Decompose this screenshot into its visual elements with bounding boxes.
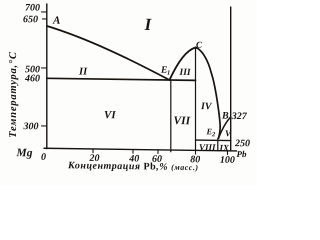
svg-text:Концентрация Pb,% (масс.): Концентрация Pb,% (масс.) [67,160,198,173]
tick 40 [132,150,134,154]
tick 100 [227,151,229,155]
y-axis [46,4,48,149]
svg-text:250: 250 [234,138,250,149]
liquidus E1 to C [170,47,196,80]
svg-text:I: I [144,15,153,34]
svg-text:Pb: Pb [237,149,247,159]
svg-text:B: B [221,110,229,121]
svg-text:327: 327 [231,111,248,122]
svg-text:II: II [78,66,88,77]
svg-text:IX: IX [219,143,231,153]
tick 700 [42,11,48,13]
svg-text:2: 2 [211,131,216,138]
svg-text:III: III [179,68,191,78]
tick 650 [43,18,48,20]
tick 20 [92,149,94,153]
svg-text:460: 460 [24,73,40,84]
compound Mg2Pb vertical [195,48,197,151]
E1 vertical [170,80,172,152]
svg-text:VIII: VIII [199,142,216,152]
svg-text:Mg: Mg [16,147,33,159]
eutectic line 460 [47,78,196,80]
svg-text:IV: IV [200,101,213,112]
svg-text:VII: VII [174,115,191,127]
svg-text:300: 300 [23,121,39,132]
liquidus E2 to B [219,117,231,139]
svg-text:100: 100 [220,155,235,166]
svg-text:0: 0 [41,152,46,163]
tick 500 [42,67,48,69]
svg-text:650: 650 [23,14,38,25]
eutectic line 250 [196,139,231,141]
svg-text:V: V [225,128,232,138]
liquidus C to E2 [196,47,221,138]
tick 300 [42,125,48,127]
svg-text:A: A [52,15,60,27]
svg-text:VI: VI [104,109,116,121]
liquidus A to E1 [47,26,170,80]
svg-text:700: 700 [25,2,40,13]
right Pb axis [230,7,232,151]
svg-text:1: 1 [167,70,170,77]
tick 60 [157,150,159,154]
E2 vertical [217,138,219,151]
svg-text:Температура,°С: Температура,°С [8,51,19,138]
tick 80 [195,150,197,154]
svg-text:C: C [196,40,203,50]
x-axis [44,148,237,151]
